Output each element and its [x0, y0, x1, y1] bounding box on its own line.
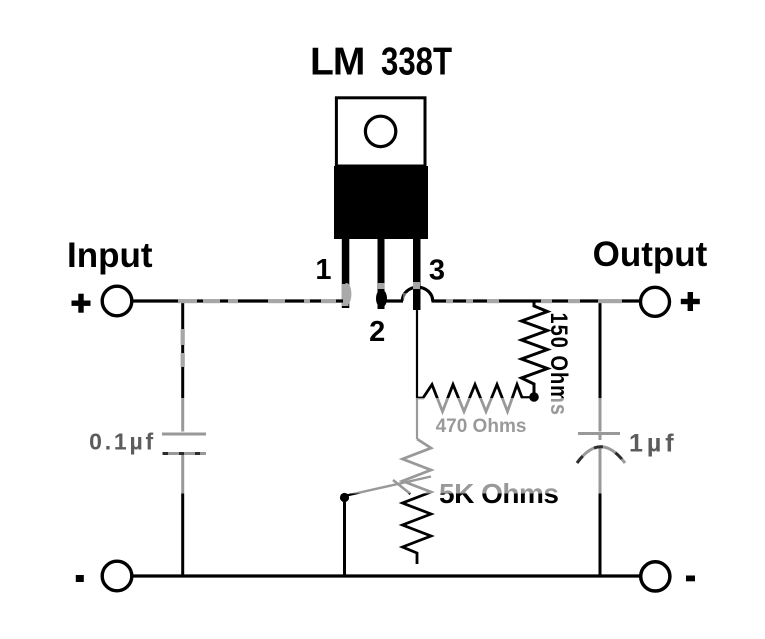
svg-text:0.1µf: 0.1µf	[89, 429, 156, 455]
svg-text:LM: LM	[310, 41, 364, 84]
svg-text:338T: 338T	[381, 40, 452, 83]
svg-text:Output: Output	[593, 235, 708, 274]
svg-text:2: 2	[369, 316, 385, 348]
svg-text:1µf: 1µf	[629, 430, 678, 458]
svg-text:3: 3	[429, 255, 445, 287]
svg-text:1: 1	[315, 254, 331, 286]
svg-text:Input: Input	[67, 236, 153, 275]
